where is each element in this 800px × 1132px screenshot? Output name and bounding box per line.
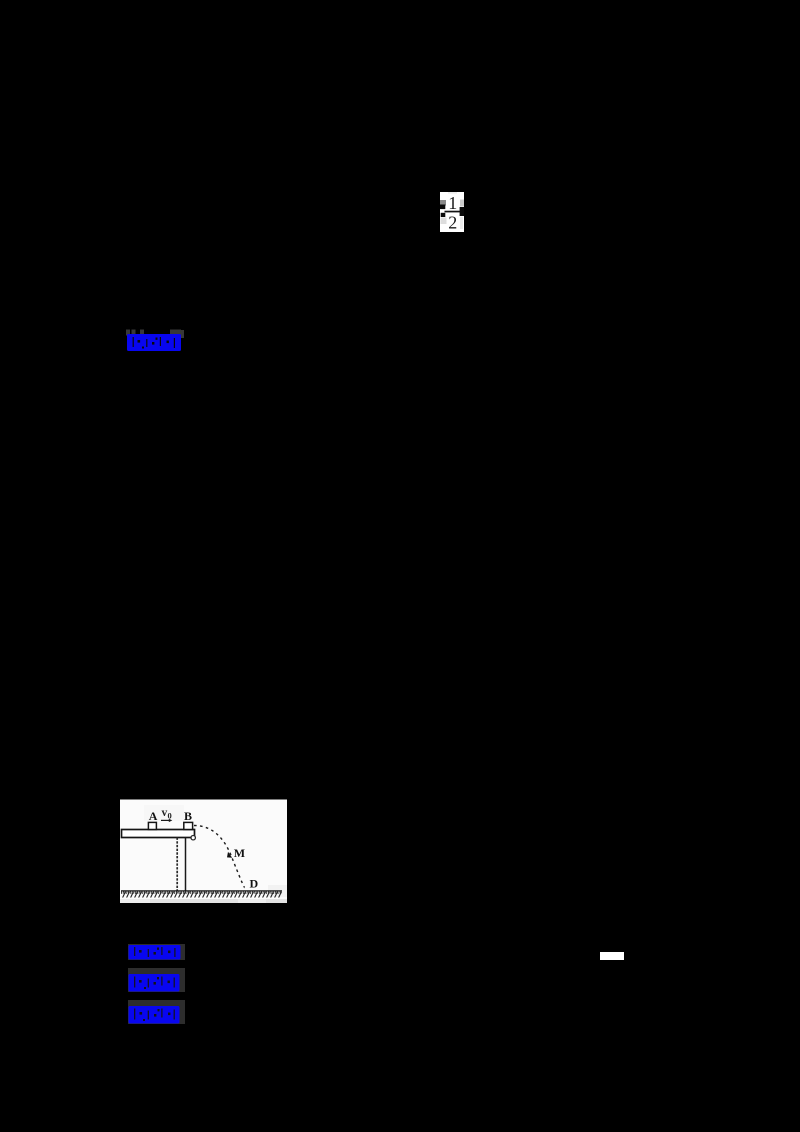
gray antialias marks above [126, 330, 130, 336]
small white equation image [600, 952, 624, 960]
table leg right line [185, 838, 187, 892]
table leg left line (rough) [176, 838, 178, 892]
svg-text:M: M [234, 846, 245, 860]
block B [184, 822, 193, 829]
bottom gray strip [120, 899, 287, 903]
svg-text:2: 2 [448, 213, 457, 232]
ground line [121, 890, 282, 892]
blue label [kaodian] with gray shading [128, 944, 185, 960]
svg-text:0: 0 [168, 810, 172, 820]
block A [148, 822, 156, 829]
svg-text:1: 1 [448, 193, 457, 213]
tabletop [122, 830, 195, 838]
svg-text:D: D [250, 876, 259, 890]
blue label [zhuanti] with gray shading [128, 968, 185, 992]
velocity arrow [161, 819, 169, 821]
physics diagram image: block on table, projectile to ground [118, 799, 288, 904]
ball at table edge [191, 836, 195, 840]
svg-text:A: A [149, 809, 158, 823]
blue label [jieda] (no shading) [126, 329, 186, 353]
blue bold CJK text approx [127, 334, 181, 351]
fraction 1/2 equation image [440, 192, 464, 232]
svg-text:B: B [184, 809, 192, 823]
trajectory arrowhead at M [227, 852, 232, 858]
dashed projectile trajectory [194, 826, 245, 888]
blue label [fenxi] with gray shading [128, 1000, 185, 1024]
faint jpeg smudges [144, 805, 184, 821]
image white background [120, 800, 287, 900]
